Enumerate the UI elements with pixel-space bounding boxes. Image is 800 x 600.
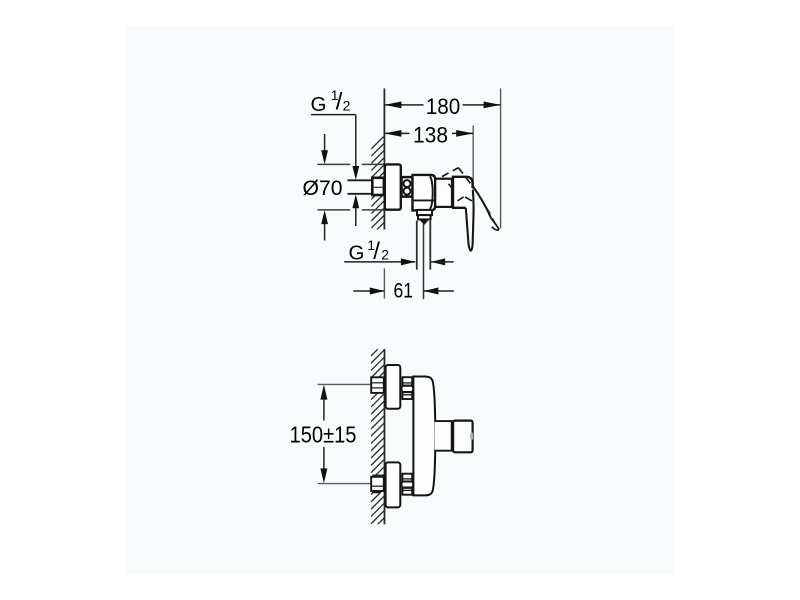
handle base [453, 177, 473, 208]
svg-text:Ø70: Ø70 [303, 177, 343, 200]
dashed raised-lever lower outline [449, 184, 473, 201]
svg-text:61: 61 [393, 280, 413, 303]
wall line (bottom view) [384, 349, 386, 524]
svg-text:G: G [349, 242, 365, 265]
wall hatching (top view) [371, 136, 384, 243]
150 dimension extension lines [318, 383, 372, 385]
svg-text:150±15: 150±15 [290, 421, 357, 447]
G1/2 leader (top) [311, 114, 356, 116]
mixer body (top view) [413, 175, 436, 211]
150 dimension line + arrows [323, 399, 325, 421]
outlet fitting below body [417, 210, 432, 215]
diameter 70 extension lines [318, 164, 384, 210]
dimension 138 [384, 132, 473, 134]
svg-text:2: 2 [381, 246, 389, 262]
S-union fitting in wall [372, 178, 384, 195]
mixer body (bottom view) [413, 377, 435, 496]
dashed raised-handle outline [442, 168, 497, 228]
escutcheon (top view) [385, 164, 401, 209]
G1/2 pipe bottom arrow [352, 194, 359, 208]
wall hatching (bottom view) [371, 342, 385, 531]
cartridge neck (bottom view) [435, 421, 452, 451]
inlet pipe in wall [348, 180, 373, 194]
escutcheon bottom (bottom view) [386, 462, 401, 507]
shower hose [416, 221, 418, 270]
union nut top (bottom view) [402, 377, 412, 399]
svg-text:180: 180 [426, 94, 461, 119]
180 right extension line [500, 88, 502, 228]
handle edge diagonal (solid) [473, 186, 492, 219]
dimension 180 [384, 104, 500, 106]
handle tip hook [491, 219, 498, 231]
escutcheon top (bottom view) [386, 365, 401, 409]
G 1/2 bottom label [349, 237, 390, 265]
dimension 61 [383, 268, 385, 298]
hex nut bottom (in wall) [372, 474, 383, 476]
knob (bottom view) [453, 421, 473, 453]
hex nut top (in wall) [371, 377, 384, 393]
wall surface line + 180 left extension line [383, 88, 385, 229]
svg-text:G: G [311, 93, 327, 116]
G1/2 bottom leader with arrows [344, 261, 415, 263]
faint product panel [127, 26, 673, 574]
knob highlight arc [470, 432, 473, 441]
svg-text:2: 2 [343, 98, 351, 114]
138 right extension line [472, 126, 474, 204]
union nut (top view) [402, 177, 413, 197]
G 1/2 top label [311, 87, 351, 116]
svg-text:138: 138 [413, 122, 448, 147]
diameter 70 arrows [324, 134, 326, 151]
union nut bottom (bottom view) [402, 474, 412, 495]
handle lever (solid, down position) [466, 190, 474, 251]
cartridge housing (top view) [435, 179, 452, 207]
